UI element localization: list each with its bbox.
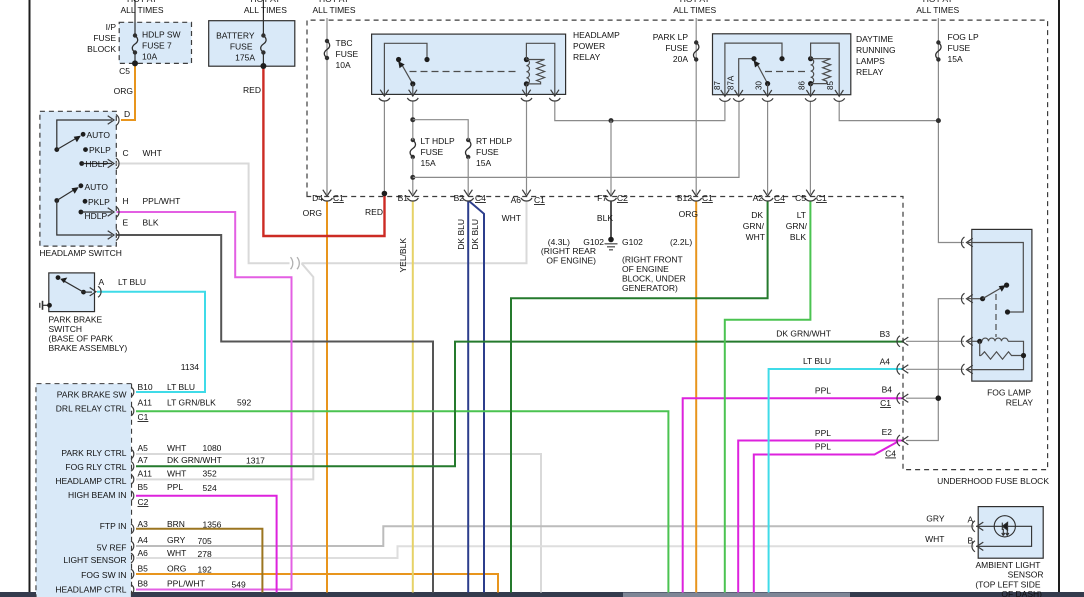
svg-text:10A: 10A <box>142 52 157 62</box>
svg-text:C5: C5 <box>795 193 806 203</box>
battery fuse box <box>209 21 295 66</box>
svg-text:A6: A6 <box>511 195 522 205</box>
svg-text:HDLP: HDLP <box>85 211 108 221</box>
label hot at all times 1 <box>121 0 164 15</box>
svg-text:FOG LP: FOG LP <box>948 32 980 42</box>
svg-text:B12: B12 <box>677 193 692 203</box>
label D <box>124 109 130 119</box>
svg-text:DK BLU: DK BLU <box>456 219 466 250</box>
wire DK BLU B2 second <box>469 201 484 593</box>
svg-text:DK BLU: DK BLU <box>470 219 480 250</box>
svg-text:HOT AT: HOT AT <box>250 0 280 4</box>
svg-text:HIGH BEAM IN: HIGH BEAM IN <box>68 490 127 500</box>
svg-text:(2.2L): (2.2L) <box>670 237 692 247</box>
svg-text:85: 85 <box>826 81 835 90</box>
labels at main dashed boundary <box>312 193 827 205</box>
svg-text:15A: 15A <box>948 54 963 64</box>
svg-text:FUSE: FUSE <box>665 43 688 53</box>
svg-text:(TOP LEFT SIDE: (TOP LEFT SIDE <box>975 580 1041 590</box>
svg-text:WHT: WHT <box>167 548 186 558</box>
svg-text:FOG SW IN: FOG SW IN <box>81 570 126 580</box>
fuse BATTERY FUSE 175A <box>260 33 266 69</box>
svg-text:A: A <box>99 277 105 287</box>
wire branch to RT fuse and B2 <box>413 120 468 194</box>
label headlamp switch pins C H E <box>123 148 181 228</box>
svg-text:(BASE OF PARK: (BASE OF PARK <box>49 334 114 344</box>
svg-text:OF ENGINE): OF ENGINE) <box>546 256 596 266</box>
wire ORG D4 TBC feed <box>326 201 328 593</box>
svg-text:PPL: PPL <box>815 428 831 438</box>
svg-text:86: 86 <box>798 81 807 90</box>
svg-text:15A: 15A <box>421 158 436 168</box>
wire plain gray TBC fuse to D4 <box>326 18 328 194</box>
svg-text:GRY: GRY <box>926 514 945 524</box>
ambient light sensor pin connectors <box>972 521 983 552</box>
svg-text:RED: RED <box>365 207 383 217</box>
svg-text:1356: 1356 <box>203 520 222 530</box>
svg-text:GRN/: GRN/ <box>786 221 808 231</box>
svg-text:BLOCK, UNDER: BLOCK, UNDER <box>622 274 686 284</box>
wire plain gray hot feed to HDLP SW fuse <box>134 0 136 63</box>
wire headlamp power relay pin3 to A6 <box>526 101 528 194</box>
park brake switch box <box>49 273 95 312</box>
svg-text:1134: 1134 <box>181 362 200 372</box>
svg-text:YEL/BLK: YEL/BLK <box>398 238 408 273</box>
svg-text:DAYTIME: DAYTIME <box>856 34 893 44</box>
label hot at all times 3 <box>313 0 356 15</box>
svg-text:PPL: PPL <box>167 482 183 492</box>
ambient light sensor internals <box>976 516 1032 547</box>
wire PPL fog block E2 <box>738 441 904 593</box>
main boundary connectors at dashed line <box>322 190 816 201</box>
daytime relay pin numbers rotated <box>713 75 835 90</box>
svg-text:WHT: WHT <box>167 469 186 479</box>
wire daytime relay 85 to fog fuse feed <box>839 101 941 123</box>
I/P fuse block dashed box <box>119 22 191 63</box>
svg-text:FUSE: FUSE <box>948 43 971 53</box>
wire plain gray hot feed to battery fuse <box>262 0 264 66</box>
wire LT GRN/BLK 592 BCM A11 DRL relay control <box>136 411 668 592</box>
page left border <box>29 0 31 592</box>
svg-text:TBC: TBC <box>336 38 353 48</box>
svg-text:1080: 1080 <box>203 443 222 453</box>
svg-text:C1: C1 <box>534 195 545 205</box>
park brake switch pin connector A <box>90 286 101 297</box>
label FOG LAMP RELAY <box>987 388 1033 408</box>
underhood block boundary connectors B3 A4 B4 E2 <box>897 336 908 446</box>
svg-text:DK GRN/WHT: DK GRN/WHT <box>167 455 222 465</box>
svg-text:LT BLU: LT BLU <box>803 356 831 366</box>
label DAYTIME RUNNING LAMPS RELAY <box>856 34 896 77</box>
svg-text:BLOCK: BLOCK <box>87 44 116 54</box>
fuse HDLP SW FUSE 7 10A <box>132 33 138 66</box>
BCM pin labels <box>138 382 266 590</box>
daytime running lamps relay box <box>713 34 851 95</box>
svg-text:BRAKE ASSEMBLY): BRAKE ASSEMBLY) <box>49 343 128 353</box>
svg-text:WHT: WHT <box>746 232 765 242</box>
svg-text:PARK RLY CTRL: PARK RLY CTRL <box>61 448 126 458</box>
label HDLP SW FUSE 7 10A <box>142 30 181 62</box>
svg-text:705: 705 <box>198 536 212 546</box>
svg-text:B5: B5 <box>138 482 149 492</box>
svg-text:HOT AT: HOT AT <box>319 0 349 4</box>
svg-text:FUSE: FUSE <box>93 33 116 43</box>
wire GRY 705 BCM A4 to ambient light sensor A <box>136 526 974 546</box>
label RED <box>243 85 261 95</box>
ground G102 <box>605 237 618 250</box>
headlamp power relay internals <box>384 43 554 94</box>
svg-text:A: A <box>968 515 974 525</box>
svg-text:BRN: BRN <box>167 519 185 529</box>
svg-text:GRY: GRY <box>167 535 186 545</box>
wire color labels under boundary <box>303 207 808 273</box>
svg-text:C2: C2 <box>617 193 628 203</box>
svg-text:C4: C4 <box>885 449 896 459</box>
svg-text:192: 192 <box>198 565 212 575</box>
wire bus LT fuse output to daytime relay 87A <box>413 101 739 177</box>
label HEADLAMP POWER RELAY <box>573 30 620 62</box>
fog lamp relay pin connectors <box>961 237 972 375</box>
svg-text:LT BLU: LT BLU <box>118 277 146 287</box>
wire PPL fog block B4 <box>683 398 904 592</box>
wire BRN 1356 BCM A3 ftp input <box>136 529 262 593</box>
daytime running lamps relay pin connectors <box>719 90 844 101</box>
svg-text:5V REF: 5V REF <box>97 543 127 553</box>
svg-text:30: 30 <box>755 81 764 90</box>
wire YEL/BLK B1 left headlamp <box>412 201 414 593</box>
svg-text:A3: A3 <box>138 519 149 529</box>
svg-text:GRN/: GRN/ <box>743 221 765 231</box>
fog lamp relay box <box>972 229 1032 381</box>
svg-text:FOG LAMP: FOG LAMP <box>987 388 1031 398</box>
svg-text:LT BLU: LT BLU <box>167 382 195 392</box>
svg-text:549: 549 <box>232 580 246 590</box>
headlamp power relay pin connectors <box>379 90 560 101</box>
svg-text:HDLP SW: HDLP SW <box>142 30 181 40</box>
label PARK LP FUSE 20A <box>653 32 689 64</box>
label TBC FUSE 10A <box>336 38 359 70</box>
svg-text:RELAY: RELAY <box>573 52 601 62</box>
svg-text:D: D <box>124 109 130 119</box>
wire PPL fog block C4 row <box>754 442 898 593</box>
svg-text:ORG: ORG <box>167 564 186 574</box>
svg-text:UNDERHOOD FUSE BLOCK: UNDERHOOD FUSE BLOCK <box>937 476 1049 486</box>
BCM pin connector arcs <box>131 387 134 594</box>
svg-text:C5: C5 <box>119 66 130 76</box>
svg-text:WHT: WHT <box>502 213 521 223</box>
svg-text:LT: LT <box>797 210 806 220</box>
svg-text:HEADLAMP CTRL: HEADLAMP CTRL <box>55 585 126 595</box>
svg-text:B1: B1 <box>398 193 409 203</box>
label headlamp switch positions <box>85 130 112 221</box>
underhood fuse block dashed boundary <box>307 20 1048 470</box>
fuse FOG LP FUSE 15A <box>936 40 941 61</box>
wire ORG fuse C5 to headlamp switch D <box>121 63 135 120</box>
svg-text:FUSE: FUSE <box>230 42 253 52</box>
svg-text:A11: A11 <box>138 469 153 479</box>
wire fog relay pin2 to B4 and E2 <box>906 299 964 441</box>
svg-text:PKLP: PKLP <box>89 145 111 155</box>
svg-text:FUSE 7: FUSE 7 <box>142 41 172 51</box>
svg-text:PARK LP: PARK LP <box>653 32 689 42</box>
label UNDERHOOD FUSE BLOCK <box>937 476 1049 486</box>
svg-text:E2: E2 <box>882 427 893 437</box>
svg-text:HEADLAMP: HEADLAMP <box>573 30 620 40</box>
wire headlamp power relay pin4 to daytime relay 87 with F7 branch <box>555 101 725 194</box>
label hot at all times 4 <box>673 0 716 15</box>
svg-text:OF ENGINE: OF ENGINE <box>622 264 669 274</box>
svg-text:LT HDLP: LT HDLP <box>421 136 456 146</box>
svg-text:SWITCH: SWITCH <box>49 324 83 334</box>
svg-text:C1: C1 <box>880 398 891 408</box>
bottom scrollbar thumb <box>623 593 850 597</box>
label park brake switch pin A <box>99 277 147 287</box>
label C5 <box>119 66 130 76</box>
headlamp switch dashed box <box>40 111 116 246</box>
svg-text:HEADLAMP CTRL: HEADLAMP CTRL <box>55 476 126 486</box>
wire daytime relay 86 to C5 <box>809 101 811 194</box>
label RT HDLP FUSE 15A <box>476 136 512 168</box>
label ORG under C5 <box>114 86 133 96</box>
svg-text:(RIGHT REAR: (RIGHT REAR <box>541 246 596 256</box>
svg-text:B10: B10 <box>138 382 153 392</box>
svg-text:LIGHT SENSOR: LIGHT SENSOR <box>63 555 126 565</box>
svg-text:A7: A7 <box>138 455 149 465</box>
svg-text:G102: G102 <box>622 237 643 247</box>
svg-text:BLK: BLK <box>143 218 159 228</box>
svg-text:C4: C4 <box>774 193 785 203</box>
wire daytime relay 30 to A2 <box>767 101 769 194</box>
svg-text:A11: A11 <box>138 398 153 408</box>
wire DK GRN/WHT 1317 BCM A7 to fog block B3 <box>136 342 904 467</box>
svg-text:HOT AT: HOT AT <box>127 0 157 4</box>
fog block boundary pin labels <box>776 329 896 459</box>
svg-text:524: 524 <box>203 483 217 493</box>
svg-text:A2: A2 <box>753 193 764 203</box>
svg-text:AUTO: AUTO <box>87 130 111 140</box>
svg-text:H: H <box>123 196 129 206</box>
svg-text:(RIGHT FRONT: (RIGHT FRONT <box>622 255 683 265</box>
svg-text:B3: B3 <box>880 329 891 339</box>
svg-text:A5: A5 <box>138 443 149 453</box>
svg-text:PARK BRAKE SW: PARK BRAKE SW <box>57 390 127 400</box>
svg-text:C1: C1 <box>138 412 149 422</box>
svg-text:175A: 175A <box>235 53 255 63</box>
wire ORG B12 park lamp feed <box>695 201 697 593</box>
svg-text:C: C <box>123 148 129 158</box>
svg-text:I/P: I/P <box>106 22 117 32</box>
svg-text:ALL TIMES: ALL TIMES <box>244 5 287 15</box>
fuse LT HDLP FUSE 15A <box>410 138 415 159</box>
svg-text:POWER: POWER <box>573 41 605 51</box>
svg-text:BLK: BLK <box>790 232 806 242</box>
headlamp switch internals <box>54 120 112 235</box>
label G102 grounds <box>541 237 692 293</box>
svg-text:D4: D4 <box>312 193 323 203</box>
label hot at all times 2 <box>244 0 287 15</box>
wire ORG 192 BCM B5 fog switch input <box>136 574 498 593</box>
label HEADLAMP SWITCH <box>39 248 122 258</box>
svg-text:ORG: ORG <box>679 209 698 219</box>
svg-text:ALL TIMES: ALL TIMES <box>916 5 959 15</box>
svg-text:LT GRN/BLK: LT GRN/BLK <box>167 398 216 408</box>
svg-text:ALL TIMES: ALL TIMES <box>313 5 356 15</box>
BCM left labels <box>55 390 126 595</box>
svg-text:AUTO: AUTO <box>85 182 109 192</box>
svg-text:WHT: WHT <box>143 148 162 158</box>
label FOG LP FUSE 15A <box>948 32 980 64</box>
daytime running lamps relay internals <box>725 43 839 95</box>
headlamp power relay box <box>372 34 566 94</box>
wire WHT 1080 BCM A5 park relay control <box>136 454 541 593</box>
svg-text:HEADLAMP SWITCH: HEADLAMP SWITCH <box>39 248 122 258</box>
body control module dashed box <box>36 384 132 597</box>
ambient light sensor box <box>978 507 1043 559</box>
svg-text:10A: 10A <box>336 60 351 70</box>
svg-text:C1: C1 <box>816 193 827 203</box>
label 1134 <box>181 362 200 372</box>
wire LT BLU fog block A4 <box>769 369 904 593</box>
wire break symbol on WHT wire <box>291 257 300 269</box>
svg-text:C4: C4 <box>475 193 486 203</box>
wire fog relay pin4 to A4 <box>906 368 964 370</box>
wire LT GRN/BLK C5 daytime relay 86 <box>725 201 811 593</box>
svg-text:RELAY: RELAY <box>1006 398 1034 408</box>
svg-text:OF DASH): OF DASH) <box>1001 589 1042 597</box>
wire plain gray PARK LP fuse to B12 <box>695 18 697 194</box>
fuse TBC FUSE 10A <box>324 39 329 60</box>
svg-text:PPL: PPL <box>815 386 831 396</box>
svg-text:278: 278 <box>198 549 212 559</box>
svg-text:87: 87 <box>713 81 722 90</box>
svg-text:C2: C2 <box>138 497 149 507</box>
headlamp switch pin connectors D C H E <box>108 115 119 241</box>
svg-text:PPL: PPL <box>815 442 831 452</box>
svg-text:PPL/WHT: PPL/WHT <box>167 579 205 589</box>
svg-text:WHT: WHT <box>167 443 186 453</box>
svg-text:RUNNING: RUNNING <box>856 45 896 55</box>
label BATTERY FUSE 175A <box>216 31 255 63</box>
svg-text:20A: 20A <box>673 54 688 64</box>
wire headlamp power relay pin1 to B1 junction <box>382 101 388 196</box>
bottom scrollbar track <box>0 592 1084 597</box>
svg-text:PKLP: PKLP <box>88 197 110 207</box>
wire LT BLU park brake switch to BCM B10 <box>97 292 205 392</box>
svg-text:ORG: ORG <box>303 208 322 218</box>
wire DK GRN/WHT A2 daytime relay 30 <box>511 201 768 593</box>
svg-text:A4: A4 <box>138 535 149 545</box>
svg-text:FTP IN: FTP IN <box>100 521 127 531</box>
svg-text:FUSE: FUSE <box>336 49 359 59</box>
wire PPL 524 BCM B5 high beam input <box>136 496 277 593</box>
svg-text:HOT AT: HOT AT <box>680 0 710 4</box>
svg-text:FOG RLY CTRL: FOG RLY CTRL <box>65 462 126 472</box>
wire headlamp power relay pin2 through LT fuse to B1 <box>410 101 415 194</box>
fog lamp relay internals <box>968 243 1026 370</box>
svg-text:FUSE: FUSE <box>476 147 499 157</box>
svg-text:B5: B5 <box>138 564 149 574</box>
wire DK BLU B2 first <box>467 201 469 593</box>
ambient light sensor pin labels <box>925 514 973 546</box>
svg-text:1317: 1317 <box>246 456 265 466</box>
park brake switch internals <box>40 275 92 310</box>
svg-text:PPL/WHT: PPL/WHT <box>143 196 181 206</box>
svg-text:B4: B4 <box>882 385 893 395</box>
wire BLK F7 to ground G102 <box>610 201 612 239</box>
svg-text:592: 592 <box>237 398 251 408</box>
svg-text:B8: B8 <box>138 579 149 589</box>
svg-text:A6: A6 <box>138 548 149 558</box>
svg-text:15A: 15A <box>476 158 491 168</box>
fuse PARK LP FUSE 20A <box>694 40 699 61</box>
svg-text:SENSOR: SENSOR <box>1008 570 1044 580</box>
svg-text:AMBIENT LIGHT: AMBIENT LIGHT <box>975 560 1040 570</box>
svg-text:BLK: BLK <box>597 213 613 223</box>
svg-text:C1: C1 <box>333 193 344 203</box>
label hot at all times 5 <box>916 0 959 15</box>
svg-text:DK GRN/WHT: DK GRN/WHT <box>776 329 831 339</box>
svg-text:GENERATOR): GENERATOR) <box>622 283 678 293</box>
svg-text:HDLP: HDLP <box>86 159 109 169</box>
svg-text:C1: C1 <box>702 193 713 203</box>
fuse RT HDLP FUSE 15A <box>466 138 471 159</box>
svg-text:RED: RED <box>243 85 261 95</box>
svg-text:E: E <box>123 218 129 228</box>
svg-text:F7: F7 <box>597 193 607 203</box>
label PARK BRAKE SWITCH <box>49 315 128 354</box>
label LT HDLP FUSE 15A <box>421 136 456 168</box>
svg-text:RELAY: RELAY <box>856 67 884 77</box>
svg-text:ORG: ORG <box>114 86 133 96</box>
svg-text:LAMPS: LAMPS <box>856 56 885 66</box>
svg-text:DK: DK <box>751 210 763 220</box>
svg-text:WHT: WHT <box>925 534 944 544</box>
svg-text:ALL TIMES: ALL TIMES <box>673 5 716 15</box>
svg-text:ALL TIMES: ALL TIMES <box>121 5 164 15</box>
wire fog relay pin3 to B3 <box>906 340 964 342</box>
wire WHT 278 BCM A6 to ambient light sensor B <box>136 546 974 558</box>
wire PPL/WHT headlamp switch H to BCM B8 <box>117 212 292 590</box>
svg-text:B2: B2 <box>454 193 465 203</box>
svg-text:RT HDLP: RT HDLP <box>476 136 512 146</box>
svg-text:DRL RELAY CTRL: DRL RELAY CTRL <box>56 404 127 414</box>
svg-text:352: 352 <box>203 469 217 479</box>
svg-text:PARK BRAKE: PARK BRAKE <box>49 315 103 325</box>
wire WHT headlamp switch C to relay A6 and BCM A11 <box>117 164 527 480</box>
svg-text:B: B <box>968 536 974 546</box>
svg-text:HOT AT: HOT AT <box>923 0 953 4</box>
svg-text:FUSE: FUSE <box>421 147 444 157</box>
label AMBIENT LIGHT SENSOR <box>975 560 1043 597</box>
wire plain gray FOG LP fuse to fog relay pin1 <box>938 18 964 243</box>
wire RED battery fuse to relay B1 junction <box>263 66 384 236</box>
svg-text:BATTERY: BATTERY <box>216 31 255 41</box>
page right border <box>1058 0 1060 592</box>
svg-text:87A: 87A <box>727 75 736 90</box>
wire BLK headlamp switch E <box>117 235 434 593</box>
label I/P fuse block <box>87 22 116 54</box>
svg-text:A4: A4 <box>880 357 891 367</box>
